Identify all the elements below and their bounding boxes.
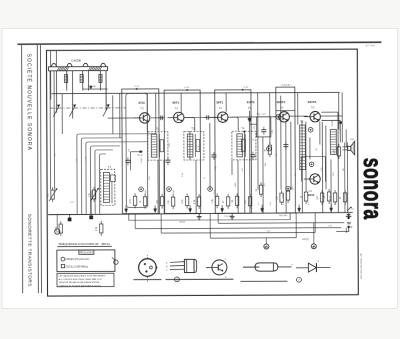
svg-text:sonora: sonora: [358, 158, 388, 220]
svg-text:25µF: 25µF: [141, 157, 143, 163]
svg-text:CHASSIS ET POINTS INDIQUES 9: CHASSIS ET POINTS INDIQUES 9 VOLTS: [58, 284, 101, 287]
svg-text:460kΩ: 460kΩ: [179, 221, 186, 223]
svg-text:ALT 74500: ALT 74500: [366, 44, 377, 47]
svg-text:50Ω: 50Ω: [350, 139, 354, 141]
svg-text:TENSION NEGATIVE MESUREE ENTR: TENSION NEGATIVE MESUREE ENTRE: [58, 281, 99, 284]
svg-text:+1.9v: +1.9v: [243, 87, 249, 89]
svg-text:4.7k: 4.7k: [328, 225, 332, 227]
svg-text:AU CONTROLEUR 20000 OHMS PAR V: AU CONTROLEUR 20000 OHMS PAR VOLT: [58, 278, 103, 281]
svg-text:460 kΩR: 460 kΩR: [279, 215, 288, 217]
svg-text:3671: 3671: [172, 101, 179, 105]
svg-text:ALT 74500 W.E 6550 1/59: ALT 74500 W.E 6550 1/59: [359, 254, 362, 280]
svg-text:CVT: CVT: [70, 202, 75, 204]
svg-text:LES VALEURS INDIQUEES SONT MES: LES VALEURS INDIQUEES SONT MESUREES: [58, 275, 106, 278]
svg-text:ONDES (PO+GO+OC): ONDES (PO+GO+OC): [66, 259, 90, 261]
svg-text:9411: 9411: [308, 193, 315, 197]
svg-text:965T1: 965T1: [277, 100, 286, 104]
svg-text:941T1: 941T1: [308, 100, 317, 104]
svg-text:EA70: EA70: [247, 100, 255, 104]
svg-text:3711: 3711: [138, 101, 145, 105]
svg-text:SONORETTE TRANSISTORS: SONORETTE TRANSISTORS: [27, 214, 32, 287]
svg-text:P.R. 1 KT: P.R. 1 KT: [257, 114, 267, 116]
svg-text:FRÉQUENCE D'ACCORD HF : 480 kc: FRÉQUENCE D'ACCORD HF : 480 kc: [59, 241, 111, 246]
svg-text:M: M: [56, 231, 58, 234]
svg-text:SOCIÉTÉ NOUVELLE SONORA: SOCIÉTÉ NOUVELLE SONORA: [25, 54, 32, 151]
svg-text:REGLAGES: REGLAGES: [79, 251, 93, 254]
svg-text:50mW: 50mW: [332, 120, 334, 126]
svg-text:50µF: 50µF: [215, 165, 217, 171]
svg-text:36T1: 36T1: [216, 100, 223, 104]
svg-text:25µF: 25µF: [145, 189, 147, 195]
svg-text:+9 (V): +9 (V): [302, 238, 309, 241]
svg-text:25µF: 25µF: [322, 200, 324, 206]
svg-text:25µF: 25µF: [173, 189, 175, 195]
svg-text:+1.9(4.3)V: +1.9(4.3)V: [280, 84, 291, 86]
svg-text:CA05B: CA05B: [71, 58, 81, 62]
svg-text:50µF: 50µF: [214, 189, 216, 195]
svg-text:+1.2v: +1.2v: [134, 86, 140, 88]
svg-text:OSCILLO (MF/480kc): OSCILLO (MF/480kc): [66, 266, 89, 268]
svg-text:+1.5v: +1.5v: [184, 87, 190, 89]
svg-text:PR.40: PR.40: [137, 155, 143, 157]
